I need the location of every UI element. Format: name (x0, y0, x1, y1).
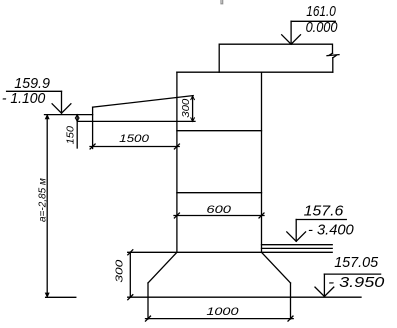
elevation mark 161.0/0.000 shelf (291, 20, 335, 22)
elevation mark 161.0 leader vertical (290, 21, 292, 44)
tick 1000 left (146, 316, 151, 321)
dimension a top arrowhead (45, 115, 49, 119)
svg-text:1000: 1000 (206, 306, 239, 318)
gray screen artifact top (221, 0, 223, 4)
elevation mark 157.6 leader vertical (295, 220, 297, 242)
extension line y=121.4 (77, 120, 195, 122)
column interior joint line 1 (177, 130, 262, 132)
tick 600 right (259, 213, 264, 218)
tick 1000 right (288, 316, 293, 321)
svg-text:157.05: 157.05 (334, 254, 379, 271)
dimension 150 vertical line (76, 115, 78, 148)
sloped ledge line (93, 96, 194, 108)
top slab outline (219, 44, 332, 72)
elevation mark 157.6/-3.400 shelf (296, 219, 346, 221)
tick 300 bottom top-end (128, 250, 133, 255)
footing left edge + extension down (147, 283, 149, 319)
tick 1500 left (90, 144, 95, 149)
floor slab line 1 right (262, 244, 333, 246)
footing right edge + extension down (290, 283, 292, 319)
tick 1500 right (174, 144, 179, 149)
svg-text:a=-2,85 м: a=-2,85 м (37, 178, 48, 222)
300 top arrowheads (191, 96, 195, 100)
extension line y=114.6 (45, 114, 93, 116)
column top line y=72 (177, 71, 333, 73)
break mark on slab right edge (327, 53, 339, 58)
dimension a bottom arrowhead (45, 293, 49, 297)
dimension 300 top vertical line (192, 96, 194, 122)
svg-text:- 3.950: - 3.950 (328, 274, 385, 291)
footing bottom level line (128, 296, 361, 298)
elevation mark 157.05 check arrow (315, 287, 334, 296)
column left edge (176, 72, 178, 252)
dimension 600 line (174, 215, 264, 217)
footing right haunch diagonal (262, 252, 291, 283)
svg-text:600: 600 (206, 204, 232, 216)
svg-text:300: 300 (181, 98, 192, 118)
elevation mark 159.9 leader vertical (61, 91, 63, 113)
svg-text:1500: 1500 (119, 133, 150, 145)
elevation mark 157.05 leader vertical (323, 274, 325, 296)
column interior joint line 2 (177, 192, 262, 194)
elevation mark 159.9 check arrow (52, 104, 71, 113)
elevation mark 157.05/-3.950 shelf (324, 273, 380, 275)
elevation mark 157.6 check arrow (287, 232, 306, 241)
svg-text:150: 150 (66, 126, 77, 145)
svg-text:- 1.100: - 1.100 (2, 90, 46, 107)
elevation mark 159.9/-1.100 shelf (7, 90, 62, 92)
footing left haunch diagonal (148, 252, 177, 283)
slab right edge lower part with break (332, 58, 334, 72)
tick 600 left (174, 213, 179, 218)
dimension 1000 line (146, 318, 294, 320)
svg-text:300: 300 (114, 259, 125, 282)
floor slab line 2 right (262, 247, 333, 249)
svg-text:- 3.400: - 3.400 (308, 222, 354, 239)
elevation mark 161.0 check arrow (282, 35, 301, 44)
dimension a vertical line (46, 115, 48, 298)
svg-text:157.6: 157.6 (304, 203, 344, 220)
ledge left vertical / 1500 extension (92, 107, 94, 148)
svg-text:0.000: 0.000 (306, 19, 338, 36)
dimension 150 arrowheads (75, 115, 79, 119)
dimension 300 bottom vertical line (129, 252, 131, 297)
column right edge (261, 72, 263, 252)
left short level segment at -3.950 (46, 296, 76, 298)
tick 300 bottom bottom-end (128, 295, 133, 300)
footing top level line A (128, 251, 333, 253)
dimension 1500 line (90, 146, 179, 148)
svg-text:161.0: 161.0 (306, 3, 336, 20)
